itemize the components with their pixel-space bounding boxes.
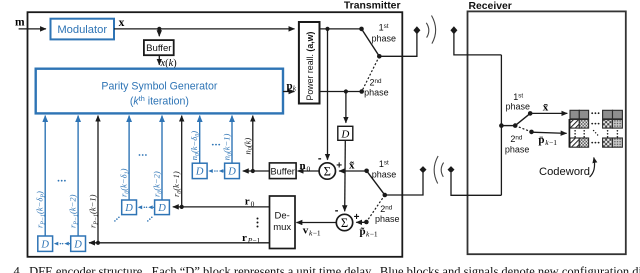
svg-text:k: k: [293, 84, 297, 93]
svg-text:4. DFE encoder structure. Ea: 4. DFE encoder structure. Each “D” block…: [14, 265, 640, 273]
svg-text:p̄: p̄: [538, 134, 544, 146]
svg-text:x̄: x̄: [543, 102, 549, 114]
svg-text:Modulator: Modulator: [57, 24, 107, 36]
svg-text:phase: phase: [506, 101, 531, 111]
svg-text:0: 0: [307, 165, 311, 174]
svg-text:Σ: Σ: [341, 216, 348, 230]
svg-text:D: D: [124, 203, 133, 214]
svg-text:Power reall. (a,w): Power reall. (a,w): [305, 32, 315, 101]
svg-text:Σ: Σ: [324, 165, 331, 179]
svg-text:Buffer: Buffer: [146, 43, 172, 54]
svg-text:D: D: [227, 167, 236, 178]
svg-text:Receiver: Receiver: [469, 1, 512, 12]
svg-text:−1: −1: [313, 229, 321, 238]
svg-text:2nd: 2nd: [369, 78, 382, 88]
svg-text:p̃: p̃: [360, 226, 366, 238]
svg-text:phase: phase: [372, 170, 397, 180]
svg-text:phase: phase: [364, 88, 389, 98]
svg-text:mux: mux: [273, 222, 291, 233]
svg-text:+: +: [354, 212, 360, 223]
svg-text:-: -: [318, 153, 322, 165]
svg-text:−1: −1: [252, 236, 260, 245]
svg-text:D: D: [40, 240, 49, 251]
svg-text:r: r: [245, 196, 250, 208]
svg-text:D: D: [195, 167, 204, 178]
svg-text:n: n: [300, 160, 306, 172]
svg-text:De-: De-: [275, 211, 290, 222]
svg-text:D: D: [73, 240, 82, 251]
svg-text:D: D: [157, 203, 166, 214]
svg-text:v: v: [303, 225, 309, 237]
svg-text:phase: phase: [372, 34, 397, 44]
svg-text:-: -: [335, 204, 339, 216]
svg-text:phase: phase: [505, 144, 530, 154]
svg-text:1st: 1st: [379, 23, 389, 33]
svg-text:1st: 1st: [379, 159, 389, 169]
svg-text:+: +: [336, 160, 342, 171]
svg-text:−1: −1: [549, 138, 557, 147]
svg-text:Transmitter: Transmitter: [344, 1, 401, 12]
svg-text:−1: −1: [370, 230, 378, 239]
svg-text:1st: 1st: [513, 92, 523, 102]
svg-text:Parity Symbol Generator: Parity Symbol Generator: [101, 81, 217, 93]
svg-text:phase: phase: [375, 214, 400, 224]
svg-text:D: D: [340, 128, 349, 140]
svg-text:2nd: 2nd: [380, 204, 393, 214]
svg-text:p: p: [287, 80, 293, 92]
svg-text:x: x: [119, 17, 125, 29]
svg-text:Buffer: Buffer: [271, 166, 295, 176]
svg-text:x̃: x̃: [349, 160, 355, 172]
svg-text:m: m: [15, 17, 25, 29]
svg-text:2nd: 2nd: [510, 134, 523, 144]
svg-text:Codeword: Codeword: [539, 166, 590, 178]
